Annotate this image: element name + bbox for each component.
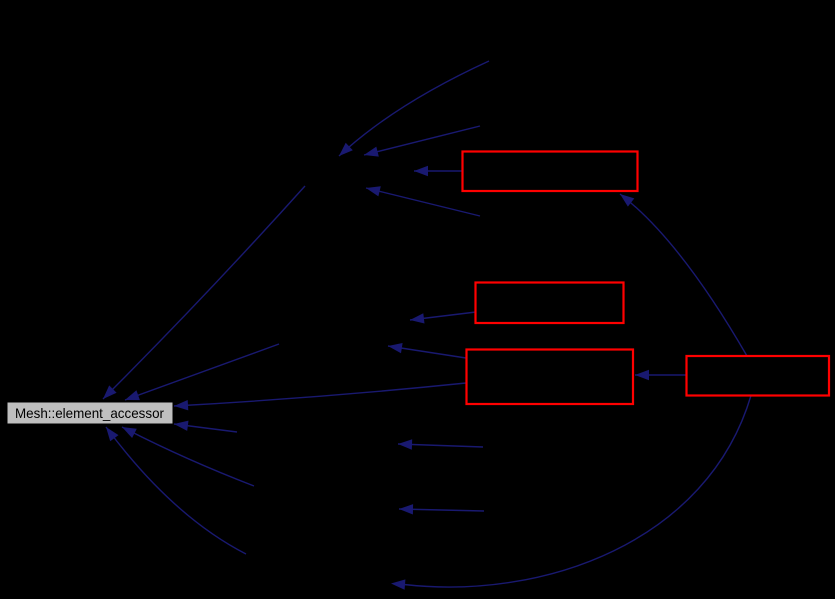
node Mesh::element_accessor (current, grey): [7, 402, 173, 424]
wire edge E8 node N3 to Mesh::element_accessor: [174, 421, 237, 432]
wire edge E10 node N5 to Mesh::element_accessor: [106, 427, 246, 554]
wire edge E1 caller to node X: [339, 61, 489, 156]
wire edge F4 caller to node N4: [399, 504, 484, 514]
node box B1 (red, truncated caller): [463, 152, 638, 192]
wire edge F5 box B4 to box B3: [635, 370, 686, 380]
wire edge E4 caller to node X: [366, 186, 480, 216]
wire edge E6 node N2 to Mesh::element_accessor: [125, 344, 279, 400]
wire edge E2 caller to node X: [364, 126, 480, 157]
wire edge E9 node N4 to Mesh::element_accessor: [122, 427, 254, 486]
wire edge E7 box B3 to Mesh::element_accessor: [174, 383, 466, 410]
wire edge F3 caller to node N3: [398, 439, 483, 449]
node box B3 (red, truncated caller): [467, 350, 634, 405]
wire edge F1 box B2 to node N2: [410, 312, 476, 324]
svg-text:Mesh::element_accessor: Mesh::element_accessor: [15, 405, 164, 421]
wire edge F2 box B3 to node N2: [388, 343, 466, 358]
wire edge E5 node X to Mesh::element_accessor: [103, 186, 305, 399]
wire edge E3 box B1 to node X: [414, 166, 463, 176]
node box B4 (red, truncated caller): [687, 356, 830, 396]
wire arc A2 box B4 to node N5: [391, 396, 751, 590]
wire arc A1 box B4 to box B1: [620, 194, 747, 356]
node box B2 (red, truncated caller): [476, 283, 624, 324]
